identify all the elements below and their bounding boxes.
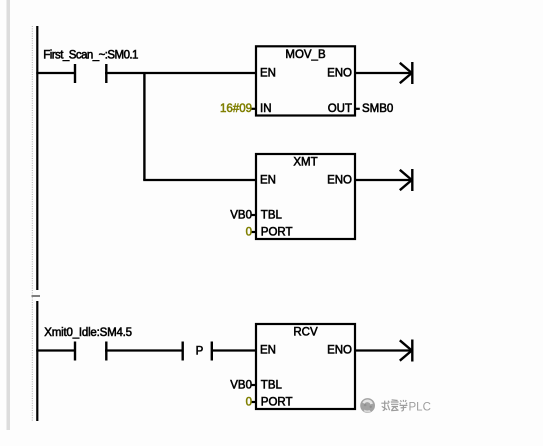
- svg-text:TBL: TBL: [261, 209, 283, 221]
- svg-text:PLC: PLC: [409, 402, 431, 414]
- wire RCV ENO to arrow: [355, 349, 411, 351]
- network margin dotted line: [31, 26, 33, 421]
- svg-text:PORT: PORT: [261, 226, 293, 238]
- box XMT outline: [256, 154, 355, 239]
- watermark hanzi wo: [381, 401, 389, 411]
- watermark hanzi xue: [400, 400, 408, 411]
- svg-text:MOV_B: MOV_B: [285, 49, 326, 61]
- svg-text:OUT: OUT: [328, 103, 352, 115]
- svg-text:PORT: PORT: [261, 396, 293, 408]
- wire contact I1 to MOV_B EN: [105, 72, 256, 74]
- svg-text:TBL: TBL: [261, 379, 283, 391]
- P contact right tick: [211, 342, 213, 361]
- power rail network 2: [36, 301, 38, 421]
- wire XMT ENO to arrow: [355, 179, 411, 181]
- pin OUT stub (MOV_B): [354, 108, 360, 110]
- wire rail to contact I2: [36, 349, 74, 351]
- open line arrow (network 2 RCV rung): [400, 340, 413, 362]
- open line arrow (network 1 MOV_B rung): [400, 62, 413, 84]
- wire MOV_B ENO to arrow: [355, 72, 411, 74]
- svg-text:ENO: ENO: [327, 345, 352, 357]
- pin TBL stub (XMT): [252, 214, 258, 216]
- svg-text:EN: EN: [260, 68, 276, 80]
- svg-text:VB0: VB0: [230, 379, 252, 391]
- pin PORT stub (RCV): [252, 401, 258, 403]
- contact I2 left tick: [74, 342, 76, 361]
- svg-text:P: P: [196, 346, 204, 358]
- svg-text:RCV: RCV: [293, 327, 318, 339]
- P contact left tick: [181, 342, 183, 361]
- contact I1 left tick: [74, 64, 76, 83]
- svg-text:EN: EN: [260, 175, 276, 187]
- svg-text:Xmit0_Idle:SM4.5: Xmit0_Idle:SM4.5: [44, 327, 132, 339]
- wire branch to XMT EN: [143, 179, 256, 181]
- svg-text:XMT: XMT: [293, 157, 317, 169]
- svg-text:VB0: VB0: [230, 209, 252, 221]
- power rail network 1: [36, 26, 38, 290]
- wire P contact to RCV EN: [213, 349, 256, 351]
- svg-text:0: 0: [246, 226, 252, 238]
- branch wire down to XMT: [143, 72, 145, 180]
- contact I2 right tick: [105, 342, 107, 361]
- wire contact I2 to P contact: [105, 349, 182, 351]
- pin TBL stub (RCV): [252, 384, 258, 386]
- box MOV_B outline: [256, 46, 355, 115]
- left window margin bar: [7, 0, 11, 430]
- contact I1 right tick: [105, 64, 107, 83]
- open line arrow (network 1 XMT rung): [400, 169, 413, 191]
- svg-text:ENO: ENO: [327, 68, 352, 80]
- svg-text:First_Scan_~:SM0.1: First_Scan_~:SM0.1: [43, 49, 138, 61]
- box RCV outline: [256, 324, 355, 409]
- svg-text:IN: IN: [260, 103, 272, 115]
- svg-text:EN: EN: [260, 345, 276, 357]
- svg-text:SMB0: SMB0: [362, 103, 393, 115]
- svg-text:16#09: 16#09: [220, 103, 252, 115]
- wire rail to contact I1: [36, 72, 74, 74]
- svg-text:ENO: ENO: [327, 175, 352, 187]
- watermark hanzi ai: [391, 400, 399, 411]
- pin PORT stub (XMT): [252, 231, 258, 233]
- network separator dash: [32, 295, 41, 297]
- pin IN stub (MOV_B): [252, 108, 258, 110]
- svg-text:0: 0: [246, 396, 252, 408]
- watermark logo circle: [360, 398, 375, 413]
